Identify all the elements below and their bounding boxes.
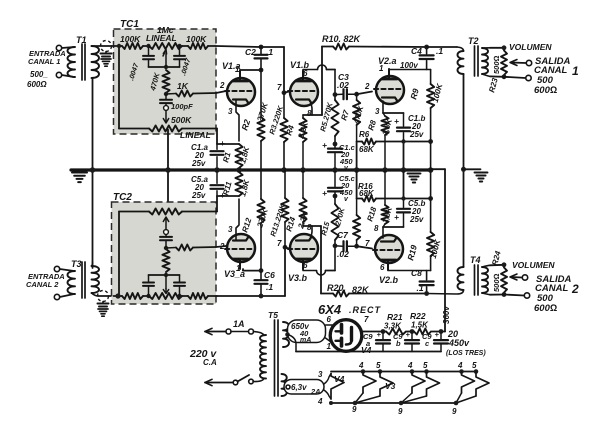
label R14 xyxy=(284,215,297,232)
label 2.2K R4 xyxy=(296,120,310,141)
label 1.8K R1 xyxy=(238,145,251,165)
main horizontal bus xyxy=(71,168,431,171)
resistor R3 220K xyxy=(280,93,287,170)
svg-text:LINEAL: LINEAL xyxy=(180,130,211,140)
ground under ch2 shield xyxy=(98,309,108,316)
label 1Mc LINEAL xyxy=(146,25,177,43)
wire V3.b plate to node xyxy=(303,269,335,275)
wire R20 left up xyxy=(320,226,322,294)
label C2 .1 xyxy=(245,47,273,57)
node bus R9 end xyxy=(428,167,434,173)
resistor R20 82K with wire xyxy=(321,291,427,297)
wire V1.a cathode to R1 xyxy=(236,100,239,141)
wire C3 to V2.a grid xyxy=(357,92,372,95)
pin 6 V1.b xyxy=(303,69,308,78)
label C9c xyxy=(422,332,432,348)
svg-text:500Ω: 500Ω xyxy=(492,273,501,292)
svg-text:4: 4 xyxy=(407,361,413,370)
svg-text:25v: 25v xyxy=(409,215,424,224)
label R22 1.5K xyxy=(410,311,429,330)
label R13 220K xyxy=(268,202,287,237)
transformer T2 core xyxy=(475,46,479,76)
label R7 xyxy=(339,109,351,122)
pin 8 V3.b xyxy=(307,223,312,232)
svg-text:VOLUMEN: VOLUMEN xyxy=(512,260,555,270)
label C1.c xyxy=(339,143,356,172)
resistor R8 1.8K xyxy=(381,113,388,170)
capacitor C2 .1 xyxy=(255,47,268,70)
svg-text:.02: .02 xyxy=(337,249,349,259)
pin 1 V2.a xyxy=(379,64,384,73)
label R12 xyxy=(240,216,253,233)
label R2 xyxy=(239,118,252,132)
node C3 right xyxy=(354,92,359,97)
svg-text:3: 3 xyxy=(228,107,233,116)
pin 7 V3.b xyxy=(277,239,282,248)
label 270K R12 xyxy=(255,206,270,229)
capacitor .0047 left (TC1) xyxy=(143,46,154,67)
node top rail at C2 xyxy=(259,45,264,50)
transformer T3 primary xyxy=(68,271,76,294)
label C1.b xyxy=(408,114,425,139)
heater group 2 xyxy=(399,369,440,405)
label R4 xyxy=(284,124,296,137)
rectifier 6X4 V4 xyxy=(330,320,362,352)
svg-text:1K: 1K xyxy=(177,81,189,91)
svg-text:T4: T4 xyxy=(470,255,481,265)
potentiometer 500K LINEAL (TC1) xyxy=(149,126,182,132)
ground at bus left end xyxy=(72,173,87,183)
input terminal channel 1 upper xyxy=(56,45,61,50)
triode V3.b xyxy=(288,234,318,269)
transformer T3 core xyxy=(82,262,85,298)
node T2T4 ground stub xyxy=(461,167,481,172)
label R21 3.3K xyxy=(384,312,403,331)
label C6 .1 xyxy=(264,270,275,292)
label 500ohm R23 xyxy=(492,55,501,74)
node TC2 b xyxy=(177,294,181,298)
wire top rail TC1 to corner xyxy=(216,46,284,93)
svg-text:+: + xyxy=(406,330,411,339)
label pin3 heater xyxy=(318,370,323,379)
wire V1.a plate to C2 node xyxy=(240,70,261,71)
label VOLUMEN ch1 xyxy=(509,42,552,52)
label TC1 xyxy=(120,19,139,30)
label R6 68K xyxy=(359,130,375,154)
heater pins 4 5 group2 xyxy=(407,361,428,370)
wire switch to T5 primary xyxy=(253,379,264,382)
label 470K R7 xyxy=(351,104,366,125)
node TC2 c xyxy=(164,246,168,250)
label 100K R19 xyxy=(429,238,443,260)
svg-text:6,3v: 6,3v xyxy=(291,383,307,392)
triode V3.a xyxy=(225,234,255,269)
label R23 xyxy=(487,76,500,93)
label 500 600 ch1 xyxy=(534,75,557,96)
wire T3 secondary bottom to TC2 xyxy=(92,293,114,296)
wire input2 to T3 xyxy=(60,269,74,297)
resistor 100K left (TC1) xyxy=(122,43,143,49)
input terminal channel 2 lower xyxy=(54,294,59,299)
label C5.b xyxy=(408,199,425,224)
wire V2.a cathode xyxy=(383,101,404,113)
node R19 top xyxy=(428,196,433,201)
wire T4 sec bottom xyxy=(482,293,504,295)
wire T1 secondary top to TC1 xyxy=(92,45,114,47)
wire 500K pot down through bus to TC2 xyxy=(167,130,169,211)
label 2.2K R14 xyxy=(296,210,310,231)
6.3V bubble xyxy=(284,380,324,395)
svg-text:.1: .1 xyxy=(417,283,424,293)
label R24 xyxy=(490,249,503,266)
node bus C1a xyxy=(214,167,220,173)
svg-text:V3_a: V3_a xyxy=(224,269,245,279)
capacitor C5.b 20 25V xyxy=(397,199,410,228)
pin 6 V3.b xyxy=(303,261,308,270)
row wire R6 xyxy=(357,141,431,143)
wire C5.a to R11 xyxy=(217,195,239,197)
svg-text:R20.: R20. xyxy=(327,283,346,293)
node TC1 b xyxy=(177,44,181,48)
transformer T5 secondary 6.3V xyxy=(282,374,287,396)
pin 1 V1.a xyxy=(235,65,240,74)
resistor R9 100K xyxy=(427,70,434,171)
heater rail top xyxy=(331,371,477,373)
svg-text:4: 4 xyxy=(358,361,364,370)
row wire R16 xyxy=(357,198,431,200)
output terminal ch2 bottom xyxy=(524,293,529,298)
resistor 100K right (TC1) xyxy=(188,43,208,49)
wire 650V bottom to 6X4 pin1 xyxy=(326,338,337,346)
transformer T5 secondary HV xyxy=(283,322,289,347)
svg-text:6: 6 xyxy=(380,263,385,272)
node bus R4 xyxy=(300,167,306,173)
node C9b top xyxy=(410,329,415,334)
node bus T1 xyxy=(90,167,96,173)
wire V2.b cathode xyxy=(383,227,404,238)
wire 6.3V to heater rails xyxy=(324,374,331,400)
wire junction to V1.b grid xyxy=(284,92,289,93)
svg-text:1: 1 xyxy=(235,65,240,74)
plus C9a xyxy=(377,330,382,339)
node bus R8 xyxy=(382,167,388,173)
wire TC1 bottom to C1.a column xyxy=(216,129,218,145)
TC2 left vertical wire xyxy=(118,212,120,297)
transformer T5 core xyxy=(275,320,279,396)
svg-text:VOLUMEN: VOLUMEN xyxy=(509,42,552,52)
wire T2 sec bottom xyxy=(482,74,504,77)
node bus R3 xyxy=(281,167,287,173)
plus C9b xyxy=(406,330,411,339)
pin 7 V4 xyxy=(364,315,369,324)
wire V3.a cathode to R11 xyxy=(236,199,239,240)
label C3 .02 xyxy=(337,72,349,90)
wire V1.b cathode to R4 row xyxy=(311,103,312,115)
wire V3.a plate to C6 node xyxy=(243,269,261,271)
resistor R18 1.8K xyxy=(381,170,388,227)
node TC1 a xyxy=(146,44,150,48)
ground on T2T4 stub xyxy=(475,173,488,182)
svg-text:V3: V3 xyxy=(385,381,396,391)
label C1.a xyxy=(191,143,208,168)
shield capacitor ch2 (dashed circle) xyxy=(98,291,109,307)
svg-text:360v: 360v xyxy=(442,306,451,324)
resistor R4 2.2K xyxy=(299,115,306,170)
wire T2-T4 vertical xyxy=(463,74,465,267)
triode V1.b xyxy=(288,71,318,106)
label V3.b xyxy=(288,273,308,283)
wiper circle 500K xyxy=(164,106,169,111)
capacitor C5.a 20 25V xyxy=(211,170,224,196)
wire T4 sec top to R24 xyxy=(482,265,504,267)
svg-text:.1: .1 xyxy=(266,282,273,292)
wire rail to T2 xyxy=(427,47,464,51)
label ENTRADA CANAL 2 xyxy=(26,272,65,289)
label 9 group3 xyxy=(452,407,457,416)
svg-text:7: 7 xyxy=(277,83,282,92)
triode V2.b xyxy=(373,235,403,270)
svg-text:2: 2 xyxy=(219,81,225,90)
svg-text:4: 4 xyxy=(317,397,323,406)
svg-text:8: 8 xyxy=(374,224,379,233)
svg-text:68K: 68K xyxy=(359,145,375,154)
svg-text:9: 9 xyxy=(452,407,457,416)
resistor R19 100K xyxy=(427,170,434,271)
wire 1K to V1.a grid xyxy=(193,91,226,94)
label VOLUMEN ch2 xyxy=(512,260,555,270)
svg-text:C2: C2 xyxy=(245,47,256,57)
label R8 xyxy=(366,119,378,132)
TC1 left vertical wire xyxy=(118,46,120,129)
svg-text:450v: 450v xyxy=(448,338,470,348)
label SALIDA CANAL 1 xyxy=(534,56,579,78)
node R24 bottom xyxy=(502,292,507,297)
ground hanging on bus right xyxy=(408,174,421,183)
label R5 270K xyxy=(318,101,335,132)
node R23 bottom xyxy=(502,74,507,79)
heater V4 chevron xyxy=(331,374,344,400)
capacitor C8 .1 xyxy=(420,271,434,294)
pin 7 V2.b xyxy=(365,239,370,248)
pin 8 V1.b xyxy=(307,109,312,118)
svg-text:1A: 1A xyxy=(233,319,245,329)
node TC1 c xyxy=(164,92,168,96)
svg-text:25v: 25v xyxy=(191,159,206,168)
wire center tap down xyxy=(288,335,297,352)
svg-text:R21: R21 xyxy=(387,312,403,322)
svg-text:LINEAL: LINEAL xyxy=(146,33,177,43)
svg-text:7: 7 xyxy=(277,239,282,248)
svg-text:C7: C7 xyxy=(337,230,349,240)
svg-text:3: 3 xyxy=(318,370,323,379)
resistor R15 270K xyxy=(331,196,338,271)
label R16 68K xyxy=(358,182,375,198)
label 1.8K R11 xyxy=(238,178,251,198)
label 500 600 ch2 xyxy=(534,293,557,314)
svg-text:CANAL 1: CANAL 1 xyxy=(28,57,60,66)
wire TC2 top to C5.a column xyxy=(216,196,218,212)
label 500K xyxy=(171,115,192,125)
heater rail bottom xyxy=(331,402,456,404)
node C2 bottom xyxy=(259,68,264,73)
resistor 470K (TC1) xyxy=(162,70,169,93)
label R11 xyxy=(221,180,233,196)
svg-text:b: b xyxy=(396,339,401,348)
output terminal ch1 wiper xyxy=(526,60,531,65)
svg-text:T2: T2 xyxy=(468,36,479,46)
capacitor C1.b 20 25V xyxy=(397,113,410,142)
TC1 bottom row wire xyxy=(119,128,217,130)
svg-text:100v: 100v xyxy=(400,61,418,70)
TC2 top row wire xyxy=(119,211,217,213)
resistor 470K (TC2) xyxy=(162,249,169,272)
wire V2.b plate node xyxy=(388,269,431,272)
label 270K R2 xyxy=(255,100,270,123)
node C6 top xyxy=(259,268,264,273)
svg-text:T1: T1 xyxy=(76,35,87,45)
svg-text:600Ω: 600Ω xyxy=(27,80,47,89)
label R15 270K xyxy=(319,206,346,236)
node TC1 mid xyxy=(164,54,168,70)
node V1.b grid junction xyxy=(282,90,287,95)
label V4 rect xyxy=(361,345,372,355)
capacitor C1.c 20 450V xyxy=(328,144,342,170)
label R19 xyxy=(405,244,419,262)
label pin4 heater bottom xyxy=(317,397,323,406)
svg-text:T5: T5 xyxy=(268,310,278,320)
triode V2.a xyxy=(374,69,404,104)
svg-text:500_: 500_ xyxy=(30,70,48,79)
wire T1 secondary bottom down to bus and T3 xyxy=(92,78,94,268)
capacitor C9.a xyxy=(376,332,390,352)
svg-text:a: a xyxy=(366,339,370,348)
svg-text:C6: C6 xyxy=(264,270,275,280)
node C1.c xyxy=(333,142,338,147)
transformer T1 core xyxy=(82,44,85,80)
svg-text:9: 9 xyxy=(352,405,357,414)
resistor R14 2.2K xyxy=(299,170,306,226)
node bus R1 xyxy=(236,167,242,173)
wire T3 secondary top up xyxy=(92,262,93,266)
label LINEAL 500K xyxy=(180,130,211,140)
node R24 top xyxy=(502,262,507,267)
svg-text:4: 4 xyxy=(457,361,463,370)
transformer T4 secondary xyxy=(482,267,488,293)
node V3.b grid junction xyxy=(283,245,288,250)
wire C7 to V2.b grid xyxy=(357,246,372,248)
resistor R1 1.8K xyxy=(235,144,242,170)
label .0047 right xyxy=(180,57,192,77)
capacitor C4 .1 xyxy=(420,47,434,70)
svg-text:5: 5 xyxy=(472,361,477,370)
label .0047 left xyxy=(128,62,140,82)
resistor R6 68K xyxy=(362,139,376,145)
capacitor C5.c 20 450V xyxy=(328,170,342,196)
svg-text:5: 5 xyxy=(376,361,381,370)
node bus TC pots xyxy=(165,167,171,173)
heater pins 4 5 group3 xyxy=(457,361,477,370)
resistor 100K left (TC2) xyxy=(122,293,143,299)
label C9b xyxy=(393,332,403,348)
label R10 82K xyxy=(322,34,362,44)
svg-text:100K: 100K xyxy=(120,34,141,44)
TC1 dashed box (tone control ch1) xyxy=(114,29,217,134)
wire R7 column to bus xyxy=(356,142,358,171)
node bus C1c xyxy=(332,167,338,173)
svg-text:100pF: 100pF xyxy=(171,102,193,111)
wire V3.b cathode to R14 row xyxy=(311,226,312,237)
label 500-600 ohm input 1 xyxy=(27,70,48,89)
pin 3 V3.a xyxy=(228,225,233,234)
pin 8 V2.b xyxy=(374,224,379,233)
resistor R16 68K xyxy=(362,196,376,202)
node C9a top xyxy=(381,329,386,334)
label 650V 40mA xyxy=(291,322,311,344)
label C4 .1 xyxy=(411,46,443,56)
wire fuse to T5 primary xyxy=(254,332,265,336)
label V4 heater xyxy=(334,374,345,384)
label 100K R9 xyxy=(431,82,445,104)
wire C5.b to bus xyxy=(403,170,405,199)
svg-text:82K: 82K xyxy=(352,285,370,295)
svg-text:(LOS TRES): (LOS TRES) xyxy=(446,350,486,357)
label 100K left xyxy=(120,34,141,44)
svg-text:R6: R6 xyxy=(359,130,370,139)
node TC2 mid xyxy=(164,273,168,289)
transformer T2 primary xyxy=(458,51,464,74)
resistor R12 270K xyxy=(257,170,264,271)
label C9a xyxy=(363,332,373,348)
svg-text:1: 1 xyxy=(379,64,384,73)
svg-text:V2.b: V2.b xyxy=(379,275,399,285)
node C3 left xyxy=(333,92,338,97)
label TC2 xyxy=(113,192,132,203)
svg-text:.RECT: .RECT xyxy=(349,305,382,315)
node bus C1b xyxy=(401,167,407,173)
heater group 3 xyxy=(454,369,489,405)
node C5.c xyxy=(333,194,338,199)
label 1A xyxy=(233,319,245,329)
wire T2 sec top to R23 xyxy=(482,47,504,49)
svg-text:V4: V4 xyxy=(334,374,345,384)
plus C1.a xyxy=(220,139,225,148)
label 1K xyxy=(177,81,189,91)
capacitor .0047 left (TC2) xyxy=(143,275,154,296)
label SALIDA CANAL 2 xyxy=(535,274,579,296)
plus C1.c xyxy=(322,140,327,150)
pin 6 V4 xyxy=(327,315,332,324)
node TC2 a xyxy=(146,294,150,298)
potentiometer R24 500ohm xyxy=(501,268,507,293)
pin 2 V1.a xyxy=(219,81,225,90)
svg-text:mA: mA xyxy=(300,337,311,344)
resistor R7 470K xyxy=(353,94,360,141)
wire bus end to 360V line xyxy=(431,169,445,331)
label R20 82K xyxy=(327,283,370,295)
label 1.8K R8 xyxy=(380,117,394,137)
svg-text:+: + xyxy=(394,212,399,222)
svg-text:3: 3 xyxy=(375,107,380,116)
label 500ohm R24 xyxy=(492,273,501,292)
label 470K TC1 xyxy=(148,71,162,92)
resistor 100K right (TC2) xyxy=(188,293,208,299)
wire TC2 1K to V3.a grid xyxy=(193,246,226,248)
wire C1.a to R1 xyxy=(217,143,239,145)
svg-text:2A: 2A xyxy=(310,387,321,396)
svg-text:2: 2 xyxy=(571,282,579,296)
label R18 xyxy=(365,205,378,222)
label C8 .1 xyxy=(411,268,424,293)
